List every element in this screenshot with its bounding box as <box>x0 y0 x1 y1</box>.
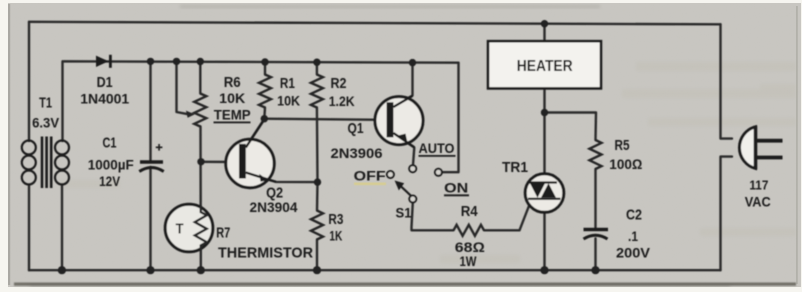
wire thermistor bottom lead <box>200 246 202 271</box>
svg-text:2N3904: 2N3904 <box>250 199 298 215</box>
capacitor C1 1000uF <box>139 144 163 172</box>
svg-text:10K: 10K <box>277 92 300 108</box>
node TR1 bottom <box>540 266 548 274</box>
wire left vertical (primary lead lower) <box>28 185 30 270</box>
wire S1 pole to R4 <box>412 203 454 231</box>
node snubber tap <box>541 109 548 116</box>
triac TR1 bottom bar <box>528 198 561 200</box>
transistor Q2 2N3904 circle <box>226 139 274 187</box>
svg-text:117: 117 <box>749 177 768 192</box>
wire left vertical (primary lead upper) <box>28 22 30 141</box>
triac TR1 right triangle <box>541 183 556 198</box>
svg-text:R3: R3 <box>328 211 343 228</box>
wire secondary top lead + DC rail <box>63 61 459 141</box>
node R2 top <box>313 59 320 66</box>
wire R1 bottom lead <box>263 108 266 119</box>
wire secondary bottom lead <box>61 185 63 270</box>
transistor Q1 base bar <box>387 102 394 137</box>
capacitor C2 .1 200V <box>584 230 609 240</box>
wire R1 top lead <box>264 62 266 75</box>
node heater top <box>541 20 548 27</box>
svg-text:6.3V: 6.3V <box>32 114 60 130</box>
svg-text:R5: R5 <box>615 137 630 154</box>
ON underline <box>444 194 469 196</box>
svg-text:.1: .1 <box>628 228 638 244</box>
svg-text:100Ω: 100Ω <box>609 156 642 172</box>
svg-text:R4: R4 <box>461 203 479 220</box>
wire R3 bottom lead <box>316 240 318 271</box>
thermistor R7 zigzag <box>195 206 207 251</box>
svg-text:THERMISTOR: THERMISTOR <box>218 245 313 262</box>
wire right vertical upper <box>721 24 733 138</box>
wire R5 to C2 <box>594 169 596 228</box>
svg-text:R7: R7 <box>216 224 230 241</box>
right page edge shade <box>796 6 798 284</box>
svg-text:HEATER: HEATER <box>517 58 573 75</box>
wire R6 wiper branch <box>177 61 189 114</box>
svg-text:R2: R2 <box>331 75 347 92</box>
node Q2 base tap <box>197 158 204 165</box>
svg-text:OFF: OFF <box>354 168 387 184</box>
AC plug prong upper <box>757 139 783 143</box>
AUTO underline <box>419 155 456 157</box>
resistor R4 68ohm <box>454 225 485 236</box>
left page edge shade <box>8 4 10 285</box>
wire C1 branch upper <box>149 61 151 160</box>
svg-text:10K: 10K <box>219 90 245 106</box>
wire C2 bottom lead <box>594 239 596 271</box>
triac TR1 circle <box>525 174 564 213</box>
svg-text:12V: 12V <box>99 173 121 189</box>
node secondary bottom <box>58 266 66 274</box>
triac TR1 left triangle <box>530 183 545 198</box>
switch S1 ON contact <box>435 169 442 176</box>
wire W1 base bus <box>264 119 387 120</box>
wire Q2 base lead <box>201 161 239 164</box>
svg-text:R6: R6 <box>224 74 241 91</box>
resistor R6 10K TEMP (potentiometer) <box>194 94 206 127</box>
transistor Q1 collector lead inside <box>393 96 412 107</box>
svg-text:TEMP: TEMP <box>214 106 251 122</box>
svg-text:S1: S1 <box>396 204 412 220</box>
diode D1 1N4001 <box>96 56 109 67</box>
switch S1 lever <box>400 185 412 196</box>
AC plug prong lower <box>757 156 783 160</box>
transistor Q2 emitter arrowhead <box>259 174 268 182</box>
node C1 bottom <box>146 266 154 274</box>
wire Q1 collector to rail <box>394 63 413 107</box>
transistor Q2 collector lead inside <box>246 120 264 148</box>
switch S1 pole contact <box>409 196 416 203</box>
wire TR1 bottom lead <box>543 199 545 270</box>
resistor R3 1K <box>311 211 323 240</box>
transistor Q2 base bar <box>239 144 246 179</box>
wire R2 bottom to W2 node <box>316 108 319 183</box>
wire snubber branch horizontal <box>545 113 597 141</box>
triac TR1 top bar <box>529 181 557 183</box>
transformer T1 primary winding <box>22 141 36 185</box>
svg-text:Q1: Q1 <box>348 120 364 137</box>
svg-text:VAC: VAC <box>745 193 771 209</box>
transistor Q1 emitter arrowhead (PNP inward) <box>398 134 408 142</box>
resistor R1 10K <box>259 75 271 108</box>
node R3 bottom <box>313 266 321 274</box>
svg-text:AUTO: AUTO <box>419 140 455 156</box>
wire heater bottom to TR1 <box>543 90 545 183</box>
svg-text:1.2K: 1.2K <box>329 93 355 109</box>
wire Q2 collector diagonal <box>246 119 264 147</box>
wire W2 node to R3 <box>316 182 319 210</box>
bottom scan shadow band <box>14 283 796 286</box>
wire R2 top lead <box>316 62 318 74</box>
AC plug body <box>739 127 755 169</box>
svg-text:ON: ON <box>444 180 468 196</box>
svg-text:1K: 1K <box>329 228 342 244</box>
transformer T1 secondary winding <box>55 141 69 185</box>
node W1 R1 bottom <box>261 115 268 122</box>
wire top rail <box>29 22 721 25</box>
wire R6 top lead <box>199 61 201 93</box>
wire ON branch <box>442 63 458 173</box>
node W2 emitter junction <box>314 178 321 185</box>
wire Q1 emitter to AUTO contact <box>394 134 415 166</box>
svg-text:1N4001: 1N4001 <box>80 91 129 107</box>
svg-text:200V: 200V <box>616 245 651 261</box>
resistor R2 1.2K <box>311 75 323 108</box>
svg-text:1000µF: 1000µF <box>88 157 134 173</box>
svg-text:1W: 1W <box>460 253 478 269</box>
node R1 top <box>261 58 268 65</box>
transistor Q1 2N3906 circle <box>375 97 423 145</box>
thermistor R7 circle <box>165 204 213 252</box>
OFF highlight underline <box>354 183 386 186</box>
svg-text:C2: C2 <box>626 206 642 223</box>
heater box <box>488 41 601 88</box>
resistor R5 100ohm <box>590 140 602 169</box>
svg-text:2N3906: 2N3906 <box>331 145 383 161</box>
svg-text:C1: C1 <box>103 135 117 152</box>
wire R4 to TR1 gate <box>484 205 530 231</box>
switch S1 OFF contact <box>387 171 394 178</box>
node thermistor bottom <box>197 266 205 274</box>
wire bottom rail <box>29 269 721 271</box>
TEMP underline <box>214 121 251 123</box>
svg-text:D1: D1 <box>97 74 113 91</box>
node C1 top <box>147 58 154 65</box>
node Q1 collector rail <box>409 59 416 66</box>
transformer T1 core <box>42 137 51 189</box>
node R6 top <box>197 58 204 65</box>
wire heater top lead <box>543 24 545 40</box>
node wiper top <box>173 58 180 65</box>
junction node dots <box>58 20 600 274</box>
wire right vertical lower <box>721 157 733 271</box>
top faint ghost line <box>180 5 600 8</box>
wire C1 branch lower <box>149 167 151 270</box>
node C2 bottom <box>591 266 599 274</box>
transistor Q2 emitter lead inside <box>246 173 276 182</box>
R6 wiper arrowhead <box>186 111 195 118</box>
switch S1 AUTO contact <box>409 165 416 172</box>
transistor Q1 emitter lead inside <box>393 133 414 147</box>
svg-text:T1: T1 <box>39 95 52 112</box>
wire R6 to thermistor <box>199 127 202 213</box>
svg-text:R1: R1 <box>280 75 295 92</box>
wire Q2 emitter to W2 <box>246 174 317 183</box>
svg-text:T: T <box>176 221 184 238</box>
svg-text:TR1: TR1 <box>502 159 528 176</box>
